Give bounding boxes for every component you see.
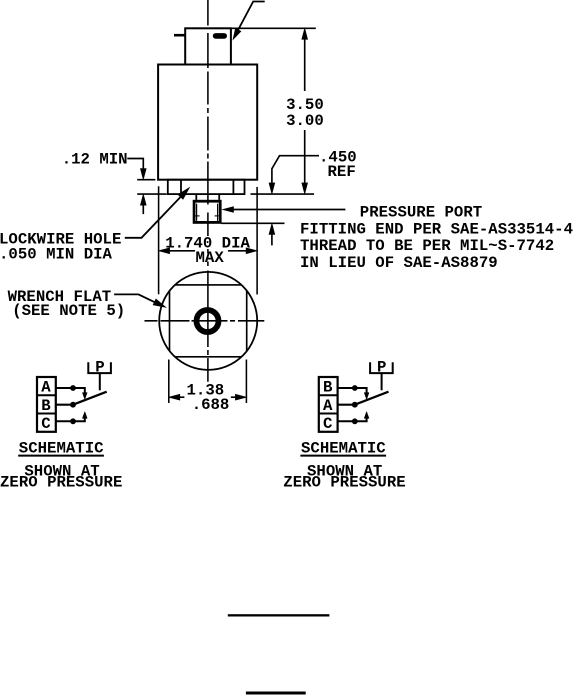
connector housing [185, 28, 231, 64]
svg-text:IN LIEU OF SAE-AS8879: IN LIEU OF SAE-AS8879 [300, 254, 498, 272]
svg-text:A: A [41, 379, 51, 397]
svg-text:ZERO PRESSURE: ZERO PRESSURE [283, 474, 405, 492]
wire C [56, 420, 73, 422]
svg-text:3.00: 3.00 [286, 112, 324, 130]
wire A [56, 387, 73, 389]
main body [158, 65, 257, 180]
terminal block [37, 377, 56, 432]
svg-text:B: B [41, 397, 51, 415]
port neck [195, 194, 197, 200]
leader .450 REF [269, 149, 357, 194]
flange [168, 180, 245, 194]
hex circle (port end view) [159, 272, 257, 370]
dimension 1.38/.688 [169, 381, 247, 414]
svg-text:REF: REF [328, 163, 356, 181]
junction dot A [70, 385, 76, 391]
svg-text:THREAD TO BE PER MIL~S-7742: THREAD TO BE PER MIL~S-7742 [300, 237, 554, 255]
flange bottom extension left [137, 193, 167, 195]
center hole [197, 310, 219, 332]
dimension 1.740 DIA MAX [159, 234, 258, 267]
leader to connector (from off-page note) [233, 2, 265, 40]
body bottom extension left [137, 179, 155, 181]
contact C (NO) [73, 418, 85, 422]
svg-text:B: B [323, 379, 333, 397]
connector slot [213, 33, 227, 39]
pressure terminal P [88, 362, 111, 373]
svg-text:A: A [323, 397, 333, 415]
extension lines 1.38 [168, 360, 170, 404]
svg-text:.12 MIN: .12 MIN [62, 150, 128, 168]
wire C [338, 420, 355, 422]
switch arm [73, 392, 107, 405]
svg-text:MAX: MAX [196, 249, 225, 267]
switch arm [355, 392, 389, 405]
contact A (NC) [73, 388, 85, 393]
LEFT SCHEMATIC [0, 358, 122, 491]
top extension line [231, 27, 316, 29]
extension line right 1.740 [256, 187, 258, 295]
revision bar [246, 692, 306, 695]
vertical centerline [207, 0, 209, 382]
svg-text:(SEE NOTE 5): (SEE NOTE 5) [12, 302, 125, 320]
junction dot C [70, 418, 76, 424]
wire A (pole) [338, 404, 355, 406]
junction dot B [352, 385, 358, 391]
pressure port body [194, 201, 220, 222]
svg-text:.050 MIN DIA: .050 MIN DIA [0, 246, 113, 264]
separator line [228, 614, 330, 616]
junction dot B [70, 402, 76, 408]
horizontal centerline [145, 320, 265, 322]
dimension 3.50/3.00 [286, 28, 324, 194]
svg-text:C: C [41, 415, 50, 433]
svg-text:C: C [323, 415, 332, 433]
junction dot A [352, 402, 358, 408]
pressure terminal P [370, 362, 393, 373]
dimension .12 MIN [62, 150, 147, 214]
connector tab [174, 34, 185, 37]
RIGHT SCHEMATIC [283, 358, 405, 491]
svg-text:.688: .688 [192, 396, 230, 414]
dimension .450 lower arrow [269, 223, 275, 245]
svg-text:PRESSURE PORT: PRESSURE PORT [360, 204, 482, 222]
flange bottom extension right [251, 193, 315, 195]
junction dot C [352, 418, 358, 424]
terminal block [319, 377, 338, 432]
svg-text:ZERO PRESSURE: ZERO PRESSURE [0, 474, 122, 492]
port bottom extension right [221, 222, 284, 224]
contact B (NC) [355, 388, 367, 393]
leader wrench flat [8, 288, 166, 320]
extension line left 1.740 [158, 186, 160, 294]
leader lockwire hole [0, 188, 190, 264]
svg-text:FITTING END PER SAE-AS33514-4: FITTING END PER SAE-AS33514-4 [300, 220, 573, 238]
pressure port leader [223, 204, 574, 272]
wire B (pole) [56, 404, 73, 406]
contact C (NO) [355, 418, 367, 422]
wire B [338, 387, 355, 389]
